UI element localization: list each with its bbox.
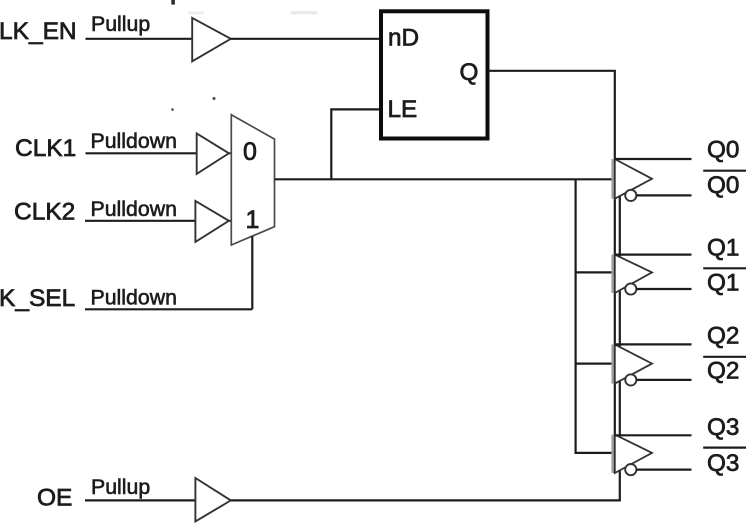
node Q1bar overline (703, 267, 746, 269)
svg-text:Pulldown: Pulldown (91, 129, 177, 153)
driver Q2 left edge shade (611, 344, 613, 383)
svg-text:Pulldown: Pulldown (91, 285, 177, 309)
svg-text:LE: LE (388, 96, 418, 123)
svg-text:OE: OE (37, 484, 72, 511)
wire Q2 true output (615, 343, 692, 345)
wire CLK1 to buffer (86, 152, 197, 154)
mux U2 body (231, 115, 274, 245)
wire buffer to latch nD (231, 38, 380, 40)
wire mux output clock net (275, 178, 615, 180)
svg-text:nD: nD (388, 25, 419, 52)
svg-text:CLK2: CLK2 (14, 198, 75, 225)
svg-text:Q3: Q3 (707, 450, 739, 477)
latch U1 body (381, 11, 488, 138)
node Q0bar overline (703, 170, 746, 172)
driver Q0 left edge shade (611, 159, 613, 199)
wire mux select vertical (251, 236, 253, 309)
svg-text:Q3: Q3 (707, 414, 739, 441)
wire Q3 complement output (636, 469, 691, 471)
speck above mux (213, 97, 216, 100)
driver Q1 left edge shade (611, 255, 613, 293)
wire CLK2 buffer to mux (229, 220, 232, 222)
svg-text:K_SEL: K_SEL (0, 285, 75, 312)
svg-text:1: 1 (246, 206, 260, 234)
buffer CLK2 input buffer (195, 201, 229, 242)
svg-text:Q2: Q2 (707, 323, 739, 350)
wire OE to buffer (85, 499, 195, 501)
svg-text:Q0: Q0 (707, 137, 739, 164)
wire latch Q output to right rail (489, 71, 615, 473)
driver Q0 bubble (625, 190, 636, 201)
wire CLK_EN to buffer (86, 38, 193, 40)
wire CLK1 buffer to mux (229, 152, 232, 154)
svg-text:CLK1: CLK1 (15, 135, 76, 162)
svg-text:0: 0 (243, 138, 257, 166)
node Q2bar overline (703, 356, 746, 358)
smudge top faint (188, 12, 204, 15)
svg-text:Q1: Q1 (707, 234, 739, 261)
svg-text:LK_EN: LK_EN (0, 18, 77, 45)
driver Q2 bubble (625, 374, 636, 385)
svg-text:Pullup: Pullup (91, 475, 150, 499)
wire Q2 complement output (636, 379, 691, 381)
driver Q3 triangle (615, 435, 652, 473)
driver Q0 triangle (615, 159, 652, 199)
speck top (171, 0, 175, 5)
wire Q1 complement output (636, 288, 691, 290)
svg-text:Q2: Q2 (707, 357, 739, 384)
svg-text:Pulldown: Pulldown (91, 197, 177, 221)
wire Q0 true output (615, 158, 692, 160)
svg-text:Q0: Q0 (707, 172, 739, 199)
driver Q1 triangle (615, 255, 652, 293)
buffer OE input buffer (195, 478, 230, 522)
wire clock bus vertical (576, 179, 615, 453)
svg-text:Pullup: Pullup (91, 12, 150, 36)
wire LE from clock net (331, 109, 379, 179)
driver Q3 bubble (625, 464, 636, 475)
svg-text:Q1: Q1 (707, 270, 739, 297)
wire Q3 true output (615, 434, 692, 436)
wire Q0 complement output (636, 194, 691, 196)
buffer CLK_EN input buffer (192, 18, 231, 61)
speck middle-left (171, 108, 174, 111)
wire clock stub to Q2 driver (576, 363, 615, 365)
wire clock stub to Q1 driver (576, 271, 615, 273)
driver Q2 triangle (615, 344, 652, 383)
wire CLK_SEL (85, 308, 252, 310)
wire Q1 true output (615, 254, 692, 256)
svg-text:Q: Q (460, 59, 479, 86)
wire CLK2 to buffer (85, 220, 195, 222)
wire OE to output drivers rail (231, 197, 620, 501)
buffer CLK1 input buffer (197, 133, 229, 174)
driver Q1 bubble (625, 283, 636, 294)
driver Q3 left edge shade (611, 435, 613, 473)
node Q3bar overline (703, 447, 746, 449)
